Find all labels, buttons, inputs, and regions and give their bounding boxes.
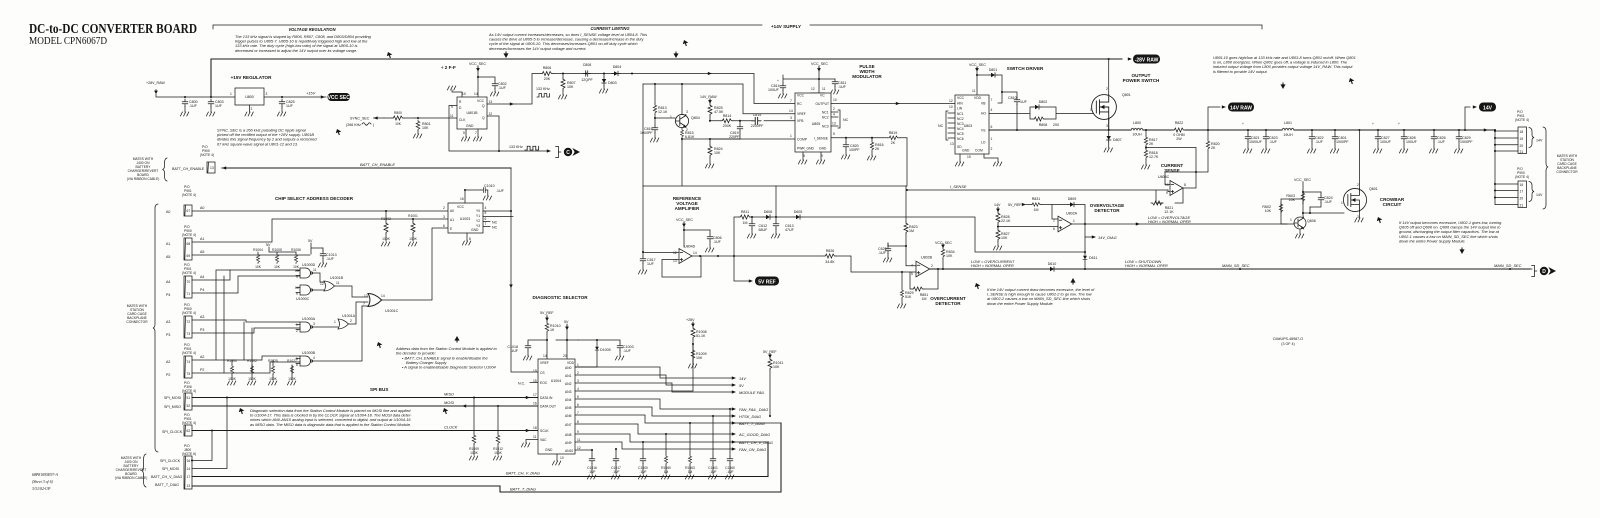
svg-text:(Sheet 3 of 6): (Sheet 3 of 6) <box>32 480 54 484</box>
wire OUTPUT pin10 of U805 to U803 <box>831 103 955 105</box>
svg-text:down the entire Power Supply M: down the entire Power Supply Module. <box>1399 238 1466 243</box>
svg-text:13: 13 <box>187 484 191 488</box>
svg-text:VCC: VCC <box>797 94 805 98</box>
svg-text:): ) <box>373 123 374 127</box>
svg-text:D611: D611 <box>1089 256 1097 260</box>
svg-text:(NOTE 4): (NOTE 4) <box>1515 175 1529 179</box>
svg-text:1UF: 1UF <box>286 104 294 108</box>
svg-text:BATT_CH_ENABLE: BATT_CH_ENABLE <box>360 162 395 167</box>
resistor R1012 pulldown MOSI <box>497 406 499 434</box>
resistor R826 <box>824 254 836 258</box>
svg-text:14V: 14V <box>994 203 1001 207</box>
svg-text:AN5: AN5 <box>565 406 572 410</box>
IC U803 <box>955 95 989 154</box>
wire crowbar drain to rail <box>1358 130 1360 189</box>
svg-text:DATA OUT: DATA OUT <box>540 405 556 409</box>
svg-text:133 KHz: 133 KHz <box>509 145 523 149</box>
svg-text:VCC_SEC: VCC_SEC <box>1294 178 1311 182</box>
svg-text:16: 16 <box>533 402 537 406</box>
svg-text:A3: A3 <box>200 315 204 319</box>
svg-text:2K: 2K <box>1211 146 1216 150</box>
svg-text:MODEL CPN6067D: MODEL CPN6067D <box>29 36 107 47</box>
svg-text:U803: U803 <box>964 124 973 128</box>
diode D809 <box>1068 202 1076 206</box>
svg-text:1: 1 <box>577 363 579 367</box>
wire feedback vertical to divider <box>775 186 777 217</box>
svg-text:72: 72 <box>187 320 191 324</box>
svg-text:+14V SUPPLY: +14V SUPPLY <box>771 24 801 29</box>
svg-text:CM#UPS-48987-O: CM#UPS-48987-O <box>1273 337 1303 341</box>
arrow down vcc_sec U803 <box>975 67 979 72</box>
svg-text:CHIP SELECT ADDRESS DECODER: CHIP SELECT ADDRESS DECODER <box>275 196 354 201</box>
svg-text:SCLK: SCLK <box>540 429 549 433</box>
svg-text:2K: 2K <box>891 141 896 145</box>
svg-text:10K: 10K <box>567 85 574 89</box>
svg-text:GND: GND <box>471 228 479 232</box>
svg-text:14: 14 <box>187 467 191 471</box>
svg-text:NC: NC <box>492 226 498 230</box>
svg-text:14V_DIAG: 14V_DIAG <box>1098 235 1117 240</box>
wire minus input from divider <box>998 226 1058 228</box>
capacitor C622 <box>887 243 889 246</box>
svg-text:14V: 14V <box>1483 105 1493 111</box>
svg-text:47.5K: 47.5K <box>714 110 724 114</box>
svg-text:AN0: AN0 <box>565 366 572 370</box>
wire after R806 <box>553 74 795 104</box>
svg-text:2: 2 <box>833 107 835 111</box>
gate U1000A <box>300 322 313 332</box>
svg-text:3/31/02-UP: 3/31/02-UP <box>32 487 51 491</box>
svg-text:2: 2 <box>1106 87 1108 91</box>
svg-text:(NOTE 4): (NOTE 4) <box>182 421 196 425</box>
svg-text:U1001C: U1001C <box>385 309 399 313</box>
svg-text:10K: 10K <box>395 122 402 126</box>
svg-text:A5: A5 <box>200 250 204 254</box>
wire -28V raw top rail <box>211 59 1122 97</box>
svg-text:+28V: +28V <box>686 318 695 322</box>
svg-text:RC: RC <box>797 102 802 106</box>
wire I_SENSE run <box>907 189 1168 191</box>
resistor R603 <box>1301 192 1304 202</box>
svg-text:SPI_CLOCK: SPI_CLOCK <box>160 459 181 463</box>
svg-text:13: 13 <box>364 294 368 298</box>
svg-text:6: 6 <box>1053 227 1055 231</box>
offpage connector C <box>556 146 580 157</box>
svg-text:DETECTOR: DETECTOR <box>935 301 961 306</box>
svg-text:1K: 1K <box>550 328 555 332</box>
svg-text:BATT_T_DIAG: BATT_T_DIAG <box>739 421 765 426</box>
svg-text:220PF: 220PF <box>729 135 740 139</box>
wire AN0 output 14V <box>575 367 733 378</box>
resistor R817 <box>1145 130 1147 136</box>
svg-text:MAIN_SD_SEC: MAIN_SD_SEC <box>1222 263 1250 268</box>
svg-text:2: 2 <box>991 147 993 151</box>
inductor L801 <box>1282 128 1294 130</box>
wires decoder column verticals <box>216 270 252 373</box>
resistor R821 feedback <box>1156 188 1183 203</box>
svg-text:10: 10 <box>833 98 837 102</box>
capacitor C612 <box>751 217 753 221</box>
svg-text:69: 69 <box>187 254 191 258</box>
wire Qbar to offpage C <box>449 106 548 152</box>
svg-text:1: 1 <box>230 92 232 96</box>
capacitor C806 <box>709 230 711 234</box>
svg-text:14V: 14V <box>1536 139 1543 143</box>
svg-text:BATT_T_DIAG: BATT_T_DIAG <box>155 483 179 487</box>
transistor Q606 <box>1294 217 1306 229</box>
svg-text:BATT_CH_ENABLE: BATT_CH_ENABLE <box>172 167 205 171</box>
svg-text:U802B: U802B <box>921 256 933 260</box>
wire drain to -28V rail <box>1108 59 1110 95</box>
resistor R816 <box>871 138 873 141</box>
svg-text:74: 74 <box>187 360 191 364</box>
svg-text:100K: 100K <box>248 377 257 381</box>
svg-text:MODULATOR: MODULATOR <box>852 74 882 79</box>
resistor R811 <box>739 215 751 219</box>
svg-text:21: 21 <box>1520 150 1524 154</box>
capacitor C1003 <box>578 340 620 343</box>
gate U1001A <box>338 319 349 329</box>
svg-text:SPI_MOSI: SPI_MOSI <box>164 396 181 400</box>
svg-text:73: 73 <box>187 332 191 336</box>
svg-text:21: 21 <box>1520 204 1524 208</box>
svg-text:14: 14 <box>789 109 793 113</box>
svg-text:1UF: 1UF <box>1020 100 1028 104</box>
svg-text:CLOCK: CLOCK <box>444 425 458 430</box>
svg-text:12: 12 <box>577 446 581 450</box>
svg-text:14: 14 <box>693 251 697 255</box>
svg-text:OUTPUT: OUTPUT <box>815 102 829 106</box>
svg-text:Q804: Q804 <box>691 116 700 120</box>
NC bracket left of U803 <box>946 111 955 140</box>
svg-text:C815: C815 <box>753 113 762 117</box>
svg-text:VREF: VREF <box>540 361 549 365</box>
svg-text:Y2: Y2 <box>476 219 480 223</box>
wire batt_t_diag long <box>192 423 781 492</box>
svg-text:R819: R819 <box>889 131 898 135</box>
cursor pointer <box>1377 217 1383 224</box>
svg-text:SWITCH DRIVER: SWITCH DRIVER <box>1007 66 1044 71</box>
diode D803 <box>603 74 605 78</box>
capacitor C829 <box>1458 129 1460 131</box>
svg-text:5V REF: 5V REF <box>758 279 776 285</box>
op-amp U802A <box>1058 216 1072 232</box>
svg-text:+15V REGULATOR: +15V REGULATOR <box>231 75 272 80</box>
wire AN1 output 5V <box>575 375 733 385</box>
svg-text:A0: A0 <box>166 210 170 214</box>
capacitor C801 <box>1334 129 1336 131</box>
svg-text:.1UF: .1UF <box>878 251 887 255</box>
svg-text:NC4: NC4 <box>957 127 964 131</box>
svg-text:4: 4 <box>313 356 315 360</box>
svg-text:AN7: AN7 <box>565 423 572 427</box>
svg-text:VCC_SEC: VCC_SEC <box>676 218 693 222</box>
svg-text:D1005: D1005 <box>600 348 611 352</box>
svg-text:BATT_CH_V_DIAG: BATT_CH_V_DIAG <box>739 440 773 445</box>
svg-text:.1UF: .1UF <box>623 349 632 353</box>
svg-text:11: 11 <box>450 114 454 118</box>
svg-text:11: 11 <box>533 435 537 439</box>
svg-text:(266 KHz: (266 KHz <box>346 123 361 127</box>
svg-text:+28V_RAW: +28V_RAW <box>146 81 165 85</box>
svg-text:2K: 2K <box>875 147 880 151</box>
svg-text:A3: A3 <box>166 320 170 324</box>
wire MISO line <box>192 397 538 399</box>
svg-text:NC5: NC5 <box>957 132 964 136</box>
svg-text:P4: P4 <box>166 293 170 297</box>
svg-text:(NOTE 4): (NOTE 4) <box>182 311 196 315</box>
wire VS rail <box>989 120 1228 131</box>
capacitor C800 <box>182 99 188 107</box>
svg-text:.1UF: .1UF <box>1315 140 1324 144</box>
svg-text:P3: P3 <box>166 333 170 337</box>
cursor pointer <box>975 283 981 290</box>
capacitor C824 <box>1320 192 1322 195</box>
svg-text:.1UF: .1UF <box>1437 140 1446 144</box>
svg-text:1: 1 <box>1090 108 1092 112</box>
svg-text:C: C <box>566 150 570 156</box>
svg-text:12: 12 <box>489 112 493 116</box>
wire AN7 output AC_GOOD_DIAG <box>575 424 733 434</box>
grounds under U805 <box>802 152 804 160</box>
svg-text:10K: 10K <box>274 265 281 269</box>
svg-text:12: 12 <box>811 87 815 91</box>
svg-text:100K: 100K <box>382 237 391 241</box>
svg-text:10K: 10K <box>1265 209 1272 213</box>
wire op-amp plus input from R817/R818 junction <box>1146 148 1196 189</box>
svg-text:19: 19 <box>1520 137 1524 141</box>
wire vcc into U803 + diode D801 <box>977 67 989 95</box>
svg-text:5: 5 <box>833 132 835 136</box>
op-amp U804C <box>1170 181 1183 196</box>
svg-text:U1000C: U1000C <box>296 297 310 301</box>
wire plus input U802B <box>902 272 916 289</box>
svg-text:1000UF: 1000UF <box>1249 140 1263 144</box>
svg-text:A0: A0 <box>450 209 454 213</box>
capacitor C820b <box>1311 129 1313 131</box>
wire MOSI line <box>192 405 538 407</box>
capacitor C1013 <box>322 248 324 251</box>
arrow down vcc_sec ref amp <box>682 223 686 228</box>
svg-text:decreased or increased to adju: decreased or increased to adjust the 14V… <box>235 48 357 53</box>
resistor R822 <box>1173 128 1185 132</box>
svg-text:R826: R826 <box>826 249 835 253</box>
svg-text:SYNC_SEC: SYNC_SEC <box>350 117 370 121</box>
svg-text:20: 20 <box>563 354 567 358</box>
wire vcc to U801B <box>478 66 495 97</box>
capacitor C1060 <box>729 408 731 410</box>
svg-text:52: 52 <box>187 404 191 408</box>
svg-text:.1UF: .1UF <box>1269 140 1278 144</box>
wire to 14V RAW badge <box>1208 107 1220 130</box>
svg-text:14: 14 <box>381 294 385 298</box>
svg-text:VOLTAGE REGULATION: VOLTAGE REGULATION <box>288 27 336 32</box>
capacitor C1000 <box>642 441 644 443</box>
svg-text:1: 1 <box>296 323 298 327</box>
svg-text:7: 7 <box>485 222 487 226</box>
svg-text:BATT_CH_V_DIAG: BATT_CH_V_DIAG <box>506 471 540 476</box>
svg-text:HIN: HIN <box>957 102 963 106</box>
svg-text:5V_REF: 5V_REF <box>1008 203 1022 207</box>
svg-text:10K: 10K <box>1001 236 1008 240</box>
ground at D input <box>452 90 462 97</box>
svg-text:12: 12 <box>949 99 953 103</box>
svg-text:VC: VC <box>820 94 825 98</box>
svg-text:(NOTE 4): (NOTE 4) <box>182 351 196 355</box>
svg-text:MAIN_SD_SEC: MAIN_SD_SEC <box>1494 263 1522 268</box>
svg-text:68: 68 <box>187 242 191 246</box>
resistor R1001 <box>412 219 414 222</box>
arrow down vcc_sec U805 <box>817 67 821 72</box>
arrow down 14V ovp <box>996 208 1000 213</box>
svg-text:4: 4 <box>991 108 993 112</box>
svg-text:P2: P2 <box>200 368 204 372</box>
wire AN6 output BATT_T_DIAG <box>575 415 781 423</box>
svg-text:5V: 5V <box>739 383 744 388</box>
svg-text:VCC_SEC: VCC_SEC <box>811 62 828 66</box>
svg-text:NC1: NC1 <box>822 111 829 115</box>
svg-text:VDD: VDD <box>567 361 575 365</box>
svg-text:P3: P3 <box>200 328 204 332</box>
resistor R1004 <box>256 254 259 264</box>
capacitor C613 <box>775 217 777 221</box>
bracket mates with station <box>1543 127 1548 209</box>
svg-text:LO: LO <box>981 141 986 145</box>
svg-text:D606: D606 <box>764 210 773 214</box>
bracket station card cage left <box>153 204 158 452</box>
capacitor C820 <box>845 138 847 142</box>
resistor R1002 <box>251 365 253 373</box>
svg-text:U1000A: U1000A <box>302 317 316 321</box>
svg-text:1: 1 <box>670 115 672 119</box>
capacitor C803 <box>208 99 214 107</box>
resistor R823 <box>904 222 908 234</box>
resistor R851 feedback <box>910 269 938 289</box>
svg-text:VCC_SEC: VCC_SEC <box>935 241 952 245</box>
svg-text:Q601: Q601 <box>1369 187 1378 191</box>
badge VCC SEC <box>328 93 351 101</box>
svg-text:DETECTOR: DETECTOR <box>1094 208 1120 213</box>
svg-text:BATT_T_DIAG: BATT_T_DIAG <box>510 487 536 492</box>
arrow up <box>1070 278 1075 284</box>
svg-text:C1010: C1010 <box>484 184 495 188</box>
wire AN3 divider <box>575 344 693 391</box>
svg-text:NC: NC <box>938 124 944 128</box>
inductor L800 <box>1131 128 1143 130</box>
svg-text:L800: L800 <box>1133 121 1141 125</box>
svg-text:13: 13 <box>489 100 493 104</box>
svg-text:D803: D803 <box>608 81 617 85</box>
svg-text:is filtered to provide 14V out: is filtered to provide 14V output. <box>1213 69 1268 74</box>
svg-text:12.1K: 12.1K <box>1164 210 1174 214</box>
svg-text:10: 10 <box>949 105 953 109</box>
op-amp U802B overcurrent <box>916 261 930 277</box>
ground VAC <box>526 440 538 444</box>
vcc C1010 <box>465 190 481 203</box>
svg-text:(NOTE 6): (NOTE 6) <box>182 452 196 456</box>
svg-text:6: 6 <box>577 403 579 407</box>
svg-text:51K: 51K <box>905 295 912 299</box>
svg-text:HIGH = NORMAL OPER: HIGH = NORMAL OPER <box>1125 263 1168 268</box>
svg-text:10K: 10K <box>714 151 721 155</box>
resistor R1009b <box>691 349 695 360</box>
zener D807 <box>1108 130 1110 134</box>
arrow up <box>454 336 459 342</box>
svg-text:7: 7 <box>790 99 792 103</box>
svg-text:AN10: AN10 <box>565 449 573 453</box>
svg-text:NC6: NC6 <box>957 137 964 141</box>
svg-text:2W: 2W <box>1176 137 1182 141</box>
svg-text:2200PF: 2200PF <box>751 124 764 128</box>
svg-text:1M: 1M <box>909 229 914 233</box>
svg-text:5: 5 <box>911 272 913 276</box>
resistor R1027 <box>291 365 293 373</box>
svg-text:POWER SWITCH: POWER SWITCH <box>1123 78 1160 83</box>
svg-text:5V: 5V <box>266 243 271 247</box>
NC EOC <box>530 382 538 384</box>
grounds under U803 <box>959 154 961 162</box>
svg-text:22.1K: 22.1K <box>1001 219 1011 223</box>
svg-text:4: 4 <box>577 387 579 391</box>
resistor R1063 <box>689 422 691 424</box>
resistor R1005 <box>275 254 278 264</box>
svg-text:AN1: AN1 <box>565 374 572 378</box>
svg-text:NC3: NC3 <box>822 125 829 129</box>
svg-text:AN6: AN6 <box>565 414 572 418</box>
svg-text:SPI_CLOCK: SPI_CLOCK <box>162 430 183 434</box>
wire 14V rail <box>1228 129 1495 131</box>
feedback loop U804D <box>662 256 701 277</box>
resistor R807 <box>562 74 564 79</box>
svg-text:N.C.: N.C. <box>518 382 525 386</box>
wire AN8 output BATT_CH_V_DIAG <box>575 434 768 442</box>
diode D606 <box>764 215 772 219</box>
wire lower spi_mosi joins mosi <box>192 398 227 469</box>
svg-text:12.7K: 12.7K <box>1149 155 1159 159</box>
svg-text:6.81K: 6.81K <box>685 135 695 139</box>
wire overcurrent output to main_sd_sec <box>930 268 1530 270</box>
svg-text:(VIA RIBBON CABLE): (VIA RIBBON CABLE) <box>115 476 148 480</box>
IC U805 <box>795 93 831 152</box>
svg-text:12.1K: 12.1K <box>658 110 668 114</box>
svg-text:D605: D605 <box>794 210 803 214</box>
wire regulator output <box>264 96 326 98</box>
svg-text:U1000D: U1000D <box>302 263 316 267</box>
svg-text:AN3: AN3 <box>565 390 572 394</box>
svg-text:2K: 2K <box>1149 142 1154 146</box>
gate U1000C <box>300 285 313 295</box>
diode D605 <box>794 215 802 219</box>
svg-text:AC_GOOD_DIAG: AC_GOOD_DIAG <box>738 432 770 437</box>
svg-text:?: ? <box>363 302 365 306</box>
svg-text:133 KHz: 133 KHz <box>536 87 550 91</box>
svg-text:13: 13 <box>210 166 214 170</box>
resistor R819 <box>888 136 899 140</box>
wire CS enable from decoder <box>511 284 538 372</box>
svg-text:R800: R800 <box>394 111 402 115</box>
svg-text:U1001B: U1001B <box>330 276 344 280</box>
svg-text:P2: P2 <box>166 373 170 377</box>
resistor R800 <box>392 116 404 120</box>
svg-text:DIAGNOSTIC SELECTOR: DIAGNOSTIC SELECTOR <box>532 295 588 300</box>
svg-text:NC1: NC1 <box>957 112 964 116</box>
cursor pointer <box>387 52 393 59</box>
svg-text:.1UF: .1UF <box>498 86 507 90</box>
svg-text:6: 6 <box>443 224 445 228</box>
gate U1000B <box>300 356 313 366</box>
svg-text:U1003: U1003 <box>460 217 471 221</box>
svg-text:.1UF: .1UF <box>713 240 722 244</box>
